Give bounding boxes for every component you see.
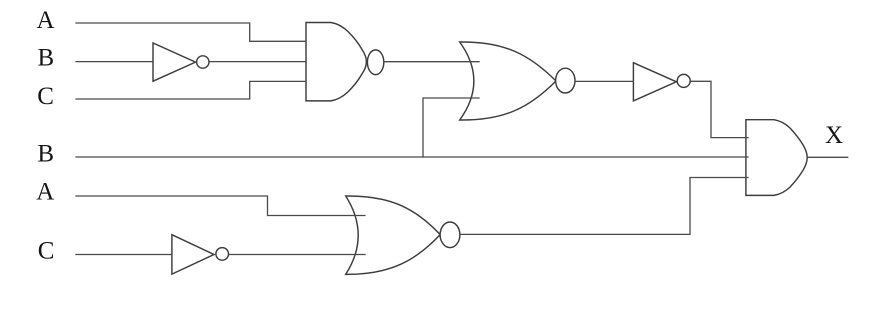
svg-text:B: B — [38, 45, 55, 72]
svg-text:C: C — [38, 238, 55, 265]
svg-text:A: A — [37, 7, 55, 34]
svg-text:B: B — [37, 140, 54, 167]
svg-text:A: A — [36, 179, 54, 206]
svg-text:C: C — [37, 83, 54, 110]
svg-text:X: X — [825, 122, 843, 149]
